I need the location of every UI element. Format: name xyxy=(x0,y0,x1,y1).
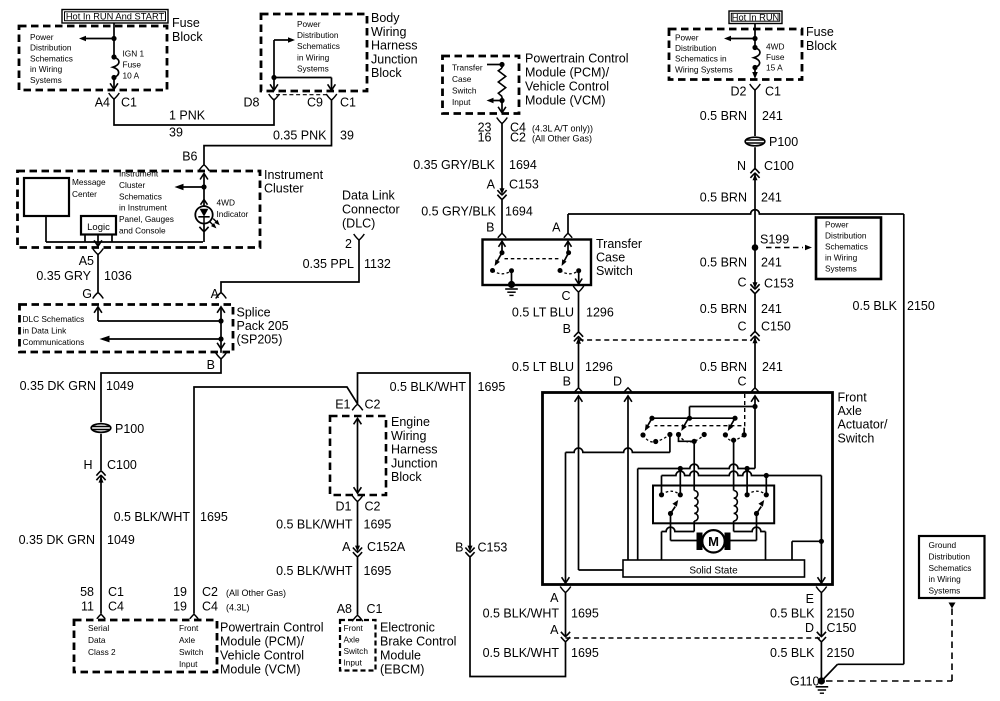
svg-text:C: C xyxy=(737,276,746,290)
svg-text:19: 19 xyxy=(173,585,187,599)
svg-text:Schematics: Schematics xyxy=(825,242,868,252)
svg-text:Instrument: Instrument xyxy=(119,169,159,179)
svg-text:Switch: Switch xyxy=(344,646,369,656)
svg-text:39: 39 xyxy=(169,126,183,140)
svg-text:Switch: Switch xyxy=(452,86,477,96)
svg-text:Instrument: Instrument xyxy=(264,168,324,182)
svg-text:A: A xyxy=(550,591,559,605)
svg-text:and Console: and Console xyxy=(119,226,166,236)
svg-text:1 PNK: 1 PNK xyxy=(169,109,206,123)
svg-text:0.5 BLK: 0.5 BLK xyxy=(770,646,815,660)
svg-text:Body: Body xyxy=(371,11,400,25)
svg-text:Distribution: Distribution xyxy=(825,231,867,241)
svg-text:(All Other Gas): (All Other Gas) xyxy=(226,588,286,598)
svg-text:C150: C150 xyxy=(761,320,791,334)
svg-text:Fuse: Fuse xyxy=(172,16,200,30)
svg-text:IGN 1: IGN 1 xyxy=(123,49,145,59)
svg-text:Systems: Systems xyxy=(30,75,62,85)
svg-text:Ground: Ground xyxy=(929,540,957,550)
svg-text:(EBCM): (EBCM) xyxy=(380,663,424,677)
svg-text:Block: Block xyxy=(391,470,422,484)
svg-text:Schematics: Schematics xyxy=(119,191,162,201)
svg-text:Harness: Harness xyxy=(371,39,418,53)
svg-text:Block: Block xyxy=(371,66,402,80)
svg-text:1132: 1132 xyxy=(364,257,391,271)
svg-text:C100: C100 xyxy=(107,458,137,472)
svg-text:1036: 1036 xyxy=(104,269,132,283)
svg-text:C1: C1 xyxy=(367,602,383,616)
svg-text:Distribution: Distribution xyxy=(675,43,717,53)
svg-text:in Wiring: in Wiring xyxy=(929,574,962,584)
svg-text:N: N xyxy=(737,159,746,173)
svg-text:Transfer: Transfer xyxy=(596,237,642,251)
svg-text:Wiring: Wiring xyxy=(371,25,406,39)
svg-text:C153: C153 xyxy=(478,541,508,555)
svg-text:C2: C2 xyxy=(365,500,381,514)
svg-text:Brake Control: Brake Control xyxy=(380,635,456,649)
svg-text:Serial: Serial xyxy=(88,623,109,633)
svg-text:Logic: Logic xyxy=(87,222,110,233)
svg-text:1695: 1695 xyxy=(571,646,599,660)
svg-text:Electronic: Electronic xyxy=(380,621,435,635)
svg-text:Communications: Communications xyxy=(23,337,85,347)
svg-text:Module: Module xyxy=(380,649,421,663)
svg-text:P100: P100 xyxy=(115,422,144,436)
svg-text:Block: Block xyxy=(172,30,203,44)
svg-text:G110: G110 xyxy=(790,675,820,689)
svg-text:Case: Case xyxy=(452,74,472,84)
svg-text:(DLC): (DLC) xyxy=(342,217,375,231)
svg-text:A: A xyxy=(550,623,559,637)
svg-text:2150: 2150 xyxy=(907,299,935,313)
svg-text:B: B xyxy=(563,322,571,336)
svg-text:0.5 BLK/WHT: 0.5 BLK/WHT xyxy=(114,510,191,524)
svg-text:0.35 GRY/BLK: 0.35 GRY/BLK xyxy=(413,158,495,172)
svg-text:A: A xyxy=(552,221,561,235)
svg-text:A: A xyxy=(342,540,351,554)
svg-text:in Wiring: in Wiring xyxy=(825,253,858,263)
svg-text:Message: Message xyxy=(72,177,106,187)
svg-text:Data Link: Data Link xyxy=(342,189,396,203)
svg-text:A5: A5 xyxy=(79,254,94,268)
svg-text:C100: C100 xyxy=(764,159,794,173)
svg-text:C2: C2 xyxy=(510,131,526,145)
svg-text:(4.3L A/T only)): (4.3L A/T only)) xyxy=(532,124,593,134)
svg-text:Input: Input xyxy=(179,659,198,669)
svg-text:C4: C4 xyxy=(202,600,218,614)
svg-text:0.5 BLK/WHT: 0.5 BLK/WHT xyxy=(483,607,560,621)
svg-text:241: 241 xyxy=(761,256,782,270)
svg-text:A: A xyxy=(487,178,496,192)
svg-text:C153: C153 xyxy=(509,178,539,192)
svg-text:Input: Input xyxy=(452,97,471,107)
svg-text:C1: C1 xyxy=(340,96,356,110)
svg-text:Distribution: Distribution xyxy=(297,30,339,40)
svg-text:Axle: Axle xyxy=(179,635,196,645)
svg-text:Powertrain Control: Powertrain Control xyxy=(525,52,629,66)
svg-text:C152A: C152A xyxy=(367,540,406,554)
svg-text:1296: 1296 xyxy=(585,360,613,374)
svg-text:58: 58 xyxy=(80,585,94,599)
svg-text:D1: D1 xyxy=(336,500,352,514)
svg-text:D2: D2 xyxy=(731,85,747,99)
svg-text:in Data Link: in Data Link xyxy=(23,326,68,336)
svg-text:P100: P100 xyxy=(769,135,798,149)
svg-text:Junction: Junction xyxy=(391,456,438,470)
svg-text:Cluster: Cluster xyxy=(264,182,304,196)
svg-text:10 A: 10 A xyxy=(123,71,140,81)
svg-text:in Wiring: in Wiring xyxy=(30,64,63,74)
svg-text:Switch: Switch xyxy=(838,431,875,445)
svg-text:2: 2 xyxy=(345,237,352,251)
svg-text:D: D xyxy=(613,375,622,389)
svg-text:241: 241 xyxy=(761,191,782,205)
svg-text:Systems: Systems xyxy=(825,264,857,274)
svg-text:1695: 1695 xyxy=(478,380,506,394)
svg-text:Powertrain Control: Powertrain Control xyxy=(220,621,324,635)
svg-text:11: 11 xyxy=(81,600,94,614)
svg-text:Schematics: Schematics xyxy=(30,53,73,63)
svg-text:Fuse: Fuse xyxy=(766,52,785,62)
svg-text:0.35 PNK: 0.35 PNK xyxy=(273,129,327,143)
svg-text:0.35 DK GRN: 0.35 DK GRN xyxy=(19,533,95,547)
svg-text:Fuse: Fuse xyxy=(123,60,142,70)
svg-text:0.5 BRN: 0.5 BRN xyxy=(700,191,747,205)
svg-text:Axle: Axle xyxy=(344,635,361,645)
svg-text:Systems: Systems xyxy=(929,586,961,596)
svg-text:(SP205): (SP205) xyxy=(237,333,283,347)
svg-text:Vehicle Control: Vehicle Control xyxy=(525,80,609,94)
svg-text:C1: C1 xyxy=(108,585,124,599)
svg-text:Schematics: Schematics xyxy=(929,563,972,573)
svg-text:B: B xyxy=(563,375,571,389)
svg-text:C2: C2 xyxy=(365,398,381,412)
svg-text:(4.3L): (4.3L) xyxy=(226,603,250,613)
svg-text:Module (VCM): Module (VCM) xyxy=(220,663,301,677)
svg-text:Wiring Systems: Wiring Systems xyxy=(675,64,733,74)
svg-text:C9: C9 xyxy=(307,96,323,110)
svg-text:C4: C4 xyxy=(108,600,124,614)
svg-text:Case: Case xyxy=(596,251,625,265)
svg-text:Front: Front xyxy=(344,623,364,633)
svg-text:2150: 2150 xyxy=(827,646,855,660)
svg-text:Hot In RUN And START: Hot In RUN And START xyxy=(66,12,165,22)
svg-text:1695: 1695 xyxy=(364,518,392,532)
svg-text:0.5 GRY/BLK: 0.5 GRY/BLK xyxy=(421,205,496,219)
svg-text:C150: C150 xyxy=(827,621,857,635)
svg-text:Module (VCM): Module (VCM) xyxy=(525,94,606,108)
svg-text:Pack 205: Pack 205 xyxy=(237,319,289,333)
svg-text:Center: Center xyxy=(72,189,97,199)
svg-text:1695: 1695 xyxy=(200,510,228,524)
svg-text:Schematics in: Schematics in xyxy=(675,54,727,64)
svg-text:241: 241 xyxy=(762,109,783,123)
svg-text:1694: 1694 xyxy=(505,205,533,219)
svg-text:0.5 LT BLU: 0.5 LT BLU xyxy=(512,306,574,320)
svg-text:Power: Power xyxy=(825,220,849,230)
svg-text:E: E xyxy=(806,592,814,606)
svg-text:A8: A8 xyxy=(337,602,352,616)
svg-text:0.5 BLK/WHT: 0.5 BLK/WHT xyxy=(390,380,467,394)
svg-text:C1: C1 xyxy=(765,85,781,99)
svg-text:in Wiring: in Wiring xyxy=(297,52,330,62)
svg-text:Indicator: Indicator xyxy=(217,209,249,219)
svg-text:4WD: 4WD xyxy=(217,198,235,208)
svg-text:E1: E1 xyxy=(335,398,350,412)
svg-text:241: 241 xyxy=(761,302,782,316)
svg-text:0.5 BLK: 0.5 BLK xyxy=(853,299,898,313)
svg-text:H: H xyxy=(83,458,92,472)
svg-text:39: 39 xyxy=(340,129,354,143)
svg-text:B: B xyxy=(455,541,463,555)
svg-text:Wiring: Wiring xyxy=(391,429,426,443)
svg-text:Front: Front xyxy=(838,391,868,405)
svg-text:DLC Schematics: DLC Schematics xyxy=(23,314,85,324)
svg-text:0.5 LT BLU: 0.5 LT BLU xyxy=(512,360,574,374)
svg-text:Solid State: Solid State xyxy=(689,566,738,577)
svg-text:in Instrument: in Instrument xyxy=(119,203,168,213)
svg-text:Junction: Junction xyxy=(371,52,418,66)
svg-text:0.5 BRN: 0.5 BRN xyxy=(700,109,747,123)
svg-text:0.5 BLK/WHT: 0.5 BLK/WHT xyxy=(276,518,353,532)
svg-text:Panel, Gauges: Panel, Gauges xyxy=(119,214,174,224)
svg-text:2150: 2150 xyxy=(827,607,855,621)
svg-text:Switch: Switch xyxy=(179,647,204,657)
svg-text:19: 19 xyxy=(173,600,187,614)
svg-text:0.35 DK GRN: 0.35 DK GRN xyxy=(20,379,96,393)
svg-text:G: G xyxy=(82,287,92,301)
svg-text:D: D xyxy=(805,621,814,635)
svg-text:C2: C2 xyxy=(202,585,218,599)
svg-text:0.5 BLK: 0.5 BLK xyxy=(770,607,815,621)
svg-text:0.5 BLK/WHT: 0.5 BLK/WHT xyxy=(276,564,353,578)
svg-text:S199: S199 xyxy=(760,233,789,247)
svg-text:Cluster: Cluster xyxy=(119,180,146,190)
svg-text:C: C xyxy=(737,320,746,334)
svg-text:Splice: Splice xyxy=(237,306,271,320)
svg-text:A4: A4 xyxy=(95,96,110,110)
svg-text:Class 2: Class 2 xyxy=(88,647,116,657)
svg-text:Power: Power xyxy=(30,32,54,42)
svg-text:C: C xyxy=(737,375,746,389)
svg-text:C153: C153 xyxy=(764,277,794,291)
svg-text:Module (PCM)/: Module (PCM)/ xyxy=(220,635,305,649)
svg-text:Distribution: Distribution xyxy=(30,43,72,53)
svg-text:Distribution: Distribution xyxy=(929,551,971,561)
svg-text:15 A: 15 A xyxy=(766,63,783,73)
svg-text:Fuse: Fuse xyxy=(806,25,834,39)
svg-text:Module (PCM)/: Module (PCM)/ xyxy=(525,66,610,80)
svg-text:M: M xyxy=(708,534,719,549)
svg-text:Connector: Connector xyxy=(342,203,400,217)
svg-text:B: B xyxy=(207,358,215,372)
svg-text:4WD: 4WD xyxy=(766,42,784,52)
svg-text:1695: 1695 xyxy=(364,564,392,578)
svg-text:Data: Data xyxy=(88,635,106,645)
svg-text:Engine: Engine xyxy=(391,415,430,429)
svg-text:0.5 BRN: 0.5 BRN xyxy=(700,302,747,316)
svg-text:D8: D8 xyxy=(244,96,260,110)
svg-text:1296: 1296 xyxy=(586,306,614,320)
svg-text:Transfer: Transfer xyxy=(452,63,483,73)
svg-text:Systems: Systems xyxy=(297,63,329,73)
svg-text:Schematics: Schematics xyxy=(297,41,340,51)
svg-text:Switch: Switch xyxy=(596,264,633,278)
svg-text:Axle: Axle xyxy=(838,404,862,418)
svg-text:Vehicle Control: Vehicle Control xyxy=(220,649,304,663)
svg-text:0.35 GRY: 0.35 GRY xyxy=(36,269,91,283)
svg-text:Input: Input xyxy=(344,658,363,668)
svg-text:0.35 PPL: 0.35 PPL xyxy=(303,257,354,271)
svg-text:Front: Front xyxy=(179,623,199,633)
svg-text:B6: B6 xyxy=(182,150,197,164)
svg-text:241: 241 xyxy=(762,360,783,374)
svg-text:1049: 1049 xyxy=(107,533,135,547)
svg-text:C1: C1 xyxy=(121,96,137,110)
svg-text:0.5 BLK/WHT: 0.5 BLK/WHT xyxy=(483,646,560,660)
svg-text:Power: Power xyxy=(297,19,321,29)
svg-text:1694: 1694 xyxy=(509,158,537,172)
svg-text:(All Other Gas): (All Other Gas) xyxy=(532,134,592,144)
svg-text:C: C xyxy=(561,289,570,303)
svg-text:0.5 BRN: 0.5 BRN xyxy=(700,360,747,374)
svg-text:1695: 1695 xyxy=(571,607,599,621)
svg-text:Block: Block xyxy=(806,39,837,53)
svg-text:0.5 BRN: 0.5 BRN xyxy=(700,256,747,270)
svg-text:Hot In RUN: Hot In RUN xyxy=(732,13,780,23)
svg-text:16: 16 xyxy=(478,131,492,145)
svg-text:B: B xyxy=(486,221,494,235)
svg-text:Actuator/: Actuator/ xyxy=(838,418,889,432)
svg-text:Power: Power xyxy=(675,33,699,43)
svg-text:Harness: Harness xyxy=(391,443,438,457)
svg-text:1049: 1049 xyxy=(106,379,134,393)
